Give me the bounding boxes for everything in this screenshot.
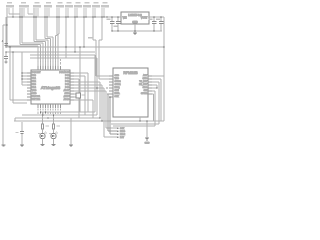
wire regulator gnd rail (112, 30, 162, 32)
wire crystal branch x80 (79, 47, 81, 112)
wire stair 2 (20, 45, 41, 67)
label U1 gnd (132, 21, 138, 24)
junction dots (5, 16, 165, 122)
svg-text:GND: GND (145, 143, 150, 145)
labels U2 top pins (38, 59, 61, 65)
wire aref rail (6, 51, 95, 53)
wire regulator gnd (134, 24, 136, 31)
wire left vcc drop (5, 17, 7, 47)
svg-text:SDO: SDO (143, 87, 148, 89)
capacitor C16 (20, 122, 24, 145)
svg-text:RX_ANT: RX_ANT (139, 83, 148, 86)
capacitor C13 (114, 17, 121, 31)
wire U3 gnd stub (139, 117, 141, 121)
svg-text:NIRQ: NIRQ (115, 87, 120, 89)
svg-text:PB7 XT2: PB7 XT2 (32, 99, 41, 101)
svg-text:SCK: SCK (115, 96, 120, 98)
ground regulator (133, 31, 137, 35)
svg-text:MOSI: MOSI (120, 134, 126, 136)
wire bottom left drops (70, 118, 72, 145)
svg-text:NSEL: NSEL (115, 93, 121, 95)
wire drop x75 (74, 17, 76, 52)
labels U3 left pins (115, 75, 122, 98)
ground G2 (20, 145, 24, 147)
svg-text:GND: GND (65, 93, 70, 95)
wire U2 left pins bus (22, 52, 27, 85)
capacitor C8 (84, 2, 91, 17)
svg-text:AREF: AREF (64, 95, 70, 98)
svg-text:PC6 RST: PC6 RST (32, 72, 41, 74)
svg-text:VCC: VCC (32, 90, 37, 92)
ground G4 (52, 145, 56, 147)
wire right edge drop (163, 47, 165, 121)
capacitor C4 (45, 2, 52, 17)
capacitor C14 (149, 17, 157, 31)
wire bottom rails (14, 112, 164, 126)
svg-text:RFM22B: RFM22B (123, 71, 138, 75)
label U1 vout (141, 17, 148, 20)
pins U2 right (70, 73, 74, 100)
ground G5 (69, 145, 73, 147)
svg-text:GPIO1: GPIO1 (115, 84, 122, 86)
label U2 (41, 85, 61, 90)
svg-text:ADC7: ADC7 (64, 89, 70, 92)
capacitor C6 (66, 2, 73, 17)
labels U3 right pins (139, 74, 148, 95)
label D2 value (49, 133, 52, 134)
labels U2 left pins (32, 72, 41, 101)
svg-text:SDI: SDI (144, 90, 148, 92)
wire top bus (7, 16, 110, 18)
capacitor C1 (7, 2, 21, 46)
capacitor C9 (93, 2, 100, 17)
svg-text:GND: GND (132, 21, 138, 24)
wire U3 right bends (152, 76, 164, 126)
wire stair 3 (22, 43, 43, 66)
microcontroller U2 ATMega88 (31, 70, 70, 104)
svg-text:PB6 XT1: PB6 XT1 (32, 96, 41, 98)
svg-text:GND: GND (32, 93, 37, 95)
svg-text:SDN: SDN (115, 90, 120, 92)
label C16 value (16, 132, 19, 133)
wire regulator vin (110, 16, 121, 18)
pins U3 right (148, 76, 152, 94)
wire stair 4 (34, 42, 46, 67)
wire stair 5 (36, 17, 48, 66)
wire stair 8 (56, 17, 58, 66)
labels U2 right pins (59, 71, 70, 101)
label net 3v3 (88, 37, 93, 38)
wire stair 9 (58, 17, 59, 66)
svg-text:TX_ANT: TX_ANT (139, 80, 147, 83)
wire U2 right to RFM (74, 73, 117, 137)
wire regulator vout (149, 17, 164, 47)
wire left rail (3, 25, 7, 145)
voltage regulator U1 (121, 12, 149, 24)
capacitor C5 (57, 2, 64, 17)
svg-text:ATMega88: ATMega88 (41, 85, 61, 90)
wire U2 reset (10, 47, 27, 103)
wire drop x84 (83, 17, 85, 47)
wire drop x102 (99, 17, 102, 40)
svg-text:GPIO2: GPIO2 (141, 93, 148, 95)
resistor R2 (52, 115, 54, 133)
svg-text:GND: GND (115, 75, 120, 77)
capacitor C10 (102, 2, 109, 17)
svg-text:PC5 ADC5: PC5 ADC5 (59, 71, 70, 74)
wire drop x93 (93, 17, 96, 40)
LED D2 (51, 131, 58, 144)
svg-text:MISO: MISO (120, 131, 126, 133)
svg-text:VCC: VCC (115, 78, 120, 80)
LED D1 (40, 131, 47, 144)
resistor R1 (41, 112, 43, 133)
svg-text:GND: GND (143, 78, 148, 80)
crystal Y1 (74, 93, 85, 98)
capacitor C15 (156, 17, 164, 31)
capacitor C7 (75, 2, 82, 17)
connector J1 (108, 94, 126, 139)
svg-text:SCK: SCK (120, 128, 125, 130)
labels U2 bottom pins (38, 109, 61, 114)
label D1 value (38, 133, 41, 134)
wire stair 6 (45, 17, 51, 66)
capacitor C2 (20, 2, 34, 45)
svg-text:VIN: VIN (123, 17, 127, 20)
capacitor C11 (2, 40, 9, 45)
wire stair 7 (47, 17, 53, 66)
wire mid rails to RFM (30, 40, 109, 115)
label U1 vin (123, 17, 127, 20)
label U1 name (128, 13, 142, 17)
label R1 value (45, 126, 49, 127)
pins U2 left (27, 73, 31, 100)
wire stair 1 (7, 46, 38, 66)
svg-text:ADC6: ADC6 (64, 98, 70, 101)
ground G3 (41, 145, 45, 147)
label R2 value (56, 126, 60, 127)
label U3 (123, 71, 138, 75)
capacitor C17 (4, 52, 8, 63)
RF module U3 RFM22B (113, 68, 148, 117)
capacitor C12 (107, 17, 115, 31)
wire drop x66 (65, 17, 67, 58)
pins U2 bottom (38, 104, 61, 108)
ground G1 (2, 145, 6, 147)
pins U2 top (38, 66, 61, 70)
capacitor C3 (34, 2, 41, 42)
ground G6 (145, 121, 150, 145)
wire vcc rail (6, 46, 164, 48)
pins U3 left (109, 76, 113, 97)
svg-text:VOUT: VOUT (141, 17, 148, 20)
svg-text:GPIO0: GPIO0 (115, 81, 122, 83)
